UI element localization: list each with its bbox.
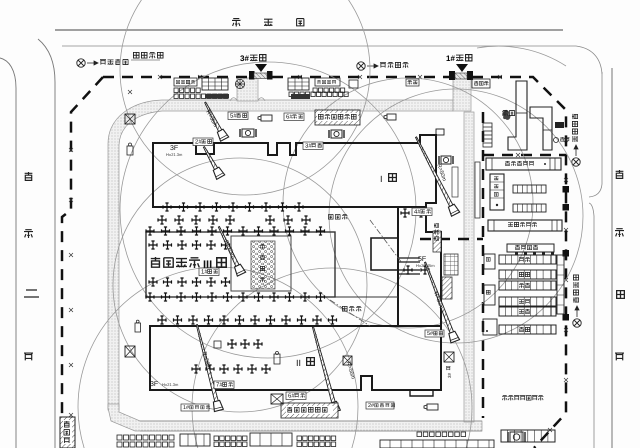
right facility cluster (288, 78, 309, 90)
tower crane 7# (192, 324, 223, 412)
south curb of top road (62, 46, 602, 74)
tall building B (490, 174, 504, 210)
市政排污 top-left (77, 59, 85, 67)
trucks (261, 115, 272, 121)
svg-text:II: II (296, 358, 301, 368)
svg-text:1#: 1# (201, 269, 208, 276)
left street name 智慧二街 (25, 172, 33, 180)
svg-text:6#: 6# (288, 393, 295, 400)
tower crane 1# (215, 225, 246, 276)
tower crane 5# (201, 100, 229, 141)
tower crane 6# (309, 326, 341, 413)
bottom slab II zone (150, 326, 441, 390)
tower crane 2# (200, 145, 225, 180)
right street name 智慧四街 (616, 170, 624, 178)
svg-text:1#: 1# (183, 405, 190, 411)
tower crane 4# (412, 135, 460, 216)
circle+label (554, 138, 559, 143)
1#塔吊 label (199, 268, 219, 276)
box with X bottom (271, 394, 283, 404)
left street curbs (0, 58, 16, 448)
bottom mid long building (380, 440, 494, 448)
3# construction elevator label (444, 352, 454, 362)
long office building (486, 158, 561, 170)
svg-text:5#: 5# (230, 113, 237, 120)
left facility cluster (174, 78, 197, 86)
svg-text:3#: 3# (447, 372, 452, 378)
washing pad symbols near 1# gate (502, 110, 508, 116)
svg-text:7#: 7# (216, 382, 223, 389)
待建生活区用地 (502, 395, 508, 400)
small box with X (125, 114, 135, 124)
1# gate (449, 71, 455, 80)
svg-text:4#: 4# (414, 209, 421, 216)
tower crane 5b east (421, 261, 460, 343)
right street line (611, 68, 613, 448)
tree symbol (502, 110, 510, 120)
bottom row of living area (501, 430, 555, 442)
steel column crosses (163, 203, 171, 211)
svg-text:6#: 6# (286, 114, 293, 121)
bottom strip small buildings (117, 435, 122, 440)
svg-text:2#: 2# (368, 403, 375, 409)
parking rows (513, 185, 546, 193)
small storage box right (472, 79, 490, 88)
left small boxes (484, 254, 495, 269)
site perimeter road stipple strips (108, 90, 453, 410)
svg-text:H=21.3m: H=21.3m (166, 152, 183, 157)
svg-text:I: I (380, 174, 383, 184)
dorm rows (499, 255, 556, 264)
zone III outer rect (146, 232, 335, 297)
svg-text:3#: 3# (305, 143, 312, 150)
stair/ladder (483, 123, 492, 147)
svg-text:3F: 3F (150, 381, 158, 388)
市政排污 top-middle (357, 62, 365, 70)
3# gate (249, 71, 255, 80)
material yards along building east edge (433, 231, 441, 252)
tower crane swing circles (120, 62, 416, 358)
工地围墙 label (133, 52, 139, 58)
2# elevator label (366, 402, 394, 409)
bottom material yard 安装材料堆场 (281, 403, 338, 418)
power house 配电房 (60, 417, 75, 448)
flag circle symbol (235, 79, 244, 88)
dark label box (555, 122, 564, 128)
svg-text:5#: 5# (427, 331, 434, 337)
svg-text:3#: 3# (240, 54, 249, 63)
building D notice board (507, 244, 554, 252)
right tall dorm (557, 255, 564, 314)
thin road lines bottom (140, 420, 482, 422)
svg-text:3F: 3F (170, 145, 178, 152)
office L building 2 (530, 107, 552, 150)
市政排污 right-2 (573, 319, 581, 327)
tower crane 3# (label near cluster) (284, 113, 304, 121)
钢构施工III区 label (151, 257, 160, 267)
building C (488, 220, 562, 231)
zone III inner rect (231, 236, 291, 291)
middle wing (398, 207, 441, 326)
construction elevators (242, 129, 254, 137)
zone dividing line 分区线 (370, 220, 402, 263)
市政排污 right-1 (572, 158, 580, 166)
steel storage 钢构堆场 (251, 241, 275, 289)
svg-text:H=21.3m: H=21.3m (162, 382, 179, 387)
material yard 安装材料堆场 top (315, 110, 360, 125)
main building I zone (top slab) (153, 135, 436, 207)
office L building 1 (508, 81, 527, 150)
svg-text:2#: 2# (195, 139, 202, 146)
svg-text:1#: 1# (446, 54, 455, 63)
1# elevator label (181, 404, 209, 411)
top road 全运路 (55, 29, 563, 31)
site fence 工地围墙 (bold dashed) (103, 76, 249, 79)
